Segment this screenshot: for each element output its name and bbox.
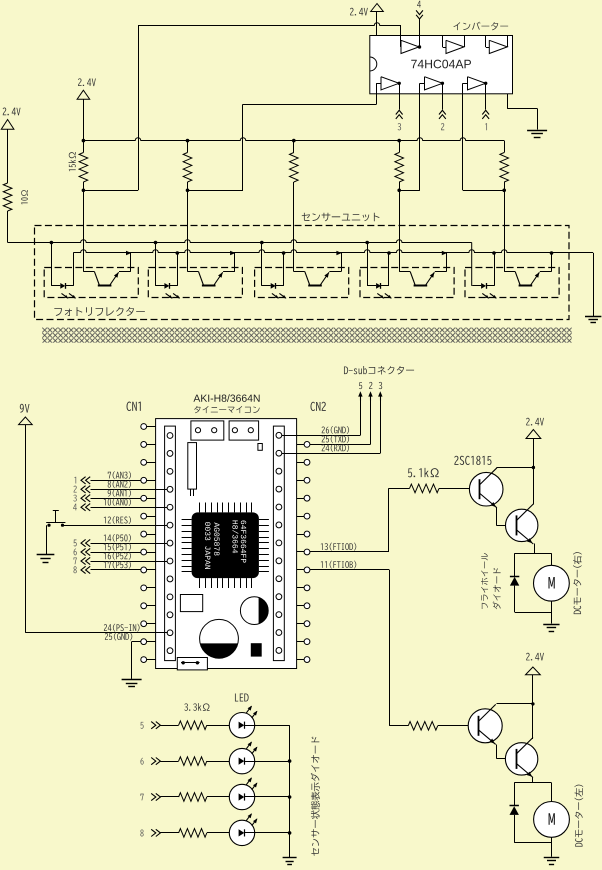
node rail B emitter arrows xyxy=(126,251,131,256)
ground (CN1 GND) xyxy=(122,679,142,681)
QFP markings xyxy=(241,520,246,562)
flywheel diode (right) xyxy=(510,576,519,578)
capacitor top view xyxy=(240,597,268,625)
wire VCC to IC xyxy=(376,12,378,36)
net 24(PS-IN) label xyxy=(104,624,140,632)
hatched line-track strip xyxy=(42,327,572,342)
pin 2 output xyxy=(442,83,444,109)
LED 3 light arrows xyxy=(272,293,279,298)
power 2.4V supply (10ohm LED feed) xyxy=(3,108,21,116)
wire LED common bus xyxy=(289,725,291,857)
label CN2 xyxy=(310,402,325,411)
crystal xyxy=(188,443,197,490)
photo reflector 5 dashed box xyxy=(465,268,559,298)
wire motor node R xyxy=(515,553,552,555)
wire node to diode L xyxy=(514,783,516,806)
wire 2.4V bus xyxy=(83,138,504,141)
node R4 bottom xyxy=(397,189,401,193)
resistor 3.3k (5) xyxy=(179,721,207,730)
label 10ohm xyxy=(21,190,28,204)
wire resistor to Q1 base xyxy=(439,488,470,490)
net 7 wire to LED xyxy=(140,794,143,801)
resistor 3.3k (7) xyxy=(179,793,207,802)
LED emitter diode 1 xyxy=(51,243,53,286)
net 7 wire 16(P52) xyxy=(74,557,77,564)
phototransistor 1 xyxy=(83,271,94,273)
IC 74HC04AP body xyxy=(370,36,513,94)
ground (LED bus) xyxy=(283,857,297,859)
label sensor status LEDs xyxy=(311,737,320,856)
net 11(FTIOB) wire xyxy=(310,569,389,571)
wire ground return rail B xyxy=(73,250,593,253)
node inverter5 output xyxy=(441,82,444,85)
motor M left xyxy=(551,783,553,802)
D-sub pin numbers xyxy=(359,382,362,389)
wire diode return L xyxy=(514,842,551,844)
node inverter4 output xyxy=(398,82,401,85)
resistor 15k pullup 1 xyxy=(83,141,85,153)
CN1 inner pins xyxy=(167,433,173,439)
label 15k ohm xyxy=(69,152,76,171)
LED 2 light arrows xyxy=(166,293,173,298)
label photo reflector xyxy=(54,307,145,316)
wire R5 to inverter6 input xyxy=(463,190,504,192)
wire R4 to inverter5 input xyxy=(399,190,420,192)
transistor Q4 2SC1815 xyxy=(505,743,537,775)
node rail B emitter tap 5 xyxy=(550,251,554,255)
ground (reset switch) xyxy=(37,554,55,556)
node inverter6 output xyxy=(484,82,487,85)
board component rect xyxy=(180,595,202,612)
power 9V supply xyxy=(20,404,30,413)
net 26(GND) wire xyxy=(282,435,361,437)
net 24(RXD) wire xyxy=(282,453,381,455)
label 2SC1815 xyxy=(454,456,491,465)
inverter gate U1E xyxy=(425,77,443,90)
net 13(FTIOD) wire xyxy=(310,551,389,553)
board header block 2 xyxy=(229,421,259,440)
photo reflector 3 dashed box xyxy=(255,268,349,298)
wire Q2 emitter to motor node xyxy=(534,544,536,554)
phototransistor 2 xyxy=(188,271,199,273)
power 2.4V supply (motor L) xyxy=(526,653,544,661)
power switch xyxy=(177,658,207,670)
net 4 wire 10(AN0) xyxy=(73,504,77,511)
buzzer top view xyxy=(200,619,239,658)
wire 9V to PS-IN xyxy=(25,425,27,633)
power 2.4V supply (motor R) xyxy=(526,418,544,426)
LED emitter diode 3 xyxy=(261,243,263,286)
board header block 1 xyxy=(191,421,224,440)
inverter gate U1C xyxy=(489,40,507,53)
ground (sensor unit) xyxy=(585,316,601,318)
pin 1 output xyxy=(485,83,487,109)
net 5 wire 14(P50) xyxy=(74,540,77,547)
wire IC ground pin xyxy=(507,94,509,109)
net 6 wire to LED xyxy=(140,758,143,765)
wire 10ohm to LED rail xyxy=(7,211,9,243)
inverter gate U1D xyxy=(381,77,399,90)
wire collector drop 5 xyxy=(504,190,506,271)
photo reflector 1 dashed box xyxy=(44,268,138,298)
transistor Q2 2SC1815 xyxy=(506,509,538,541)
resistor 15k pullup 2 xyxy=(187,141,189,153)
resistor 15k pullup 5 xyxy=(504,141,506,153)
status LED 5 xyxy=(207,725,230,727)
small component xyxy=(258,444,262,451)
net 1 wire 7(AN3) xyxy=(74,477,76,484)
resistor 10ohm xyxy=(3,183,12,211)
wire rail B to ground xyxy=(593,253,595,317)
node rail A anode taps xyxy=(50,241,54,245)
CN1 pin strip xyxy=(165,426,176,660)
label 5.1k xyxy=(408,468,439,477)
wire 2.4V to 10ohm resistor xyxy=(7,129,9,183)
net 2 wire 8(AN2) xyxy=(74,486,77,493)
status LED 6 xyxy=(207,761,230,763)
transistor Q1 2SC1815 xyxy=(470,488,480,490)
label CN1 xyxy=(127,402,141,412)
node rail B cathode taps xyxy=(176,251,180,255)
LED emitter diode 2 xyxy=(155,243,157,286)
net 25(TXD) wire xyxy=(310,444,371,446)
flywheel diode (left) xyxy=(510,805,519,807)
CN2 inner pins xyxy=(276,432,282,438)
wire collector drop 1 xyxy=(83,190,85,271)
LED 1 light arrows xyxy=(62,293,69,298)
net 3 wire 9(AN1) xyxy=(73,495,76,502)
photo reflector 2 dashed box xyxy=(148,268,242,298)
motor M right xyxy=(551,553,553,565)
D-sub pin arrows xyxy=(360,396,362,401)
transistor Q3 2SC1815 xyxy=(468,725,478,727)
phototransistor 5 xyxy=(504,271,515,273)
inverter gate U1F xyxy=(468,77,486,90)
status LED 8 xyxy=(207,832,230,834)
label LED xyxy=(235,693,249,701)
label flywheel diode xyxy=(481,553,488,609)
resistor 5.1k (L) xyxy=(408,722,438,731)
label D-sub connector xyxy=(344,366,414,375)
phototransistor 3 xyxy=(294,271,305,273)
CN2 outer pin stubs xyxy=(297,444,305,446)
CN2 outer pins xyxy=(304,442,310,448)
label DC motor right xyxy=(573,552,582,614)
CN2 pin strip xyxy=(273,426,284,660)
wire motor node L xyxy=(514,782,551,784)
wire 2.4V to collectors L xyxy=(532,675,534,739)
ground (motor R) xyxy=(543,624,559,626)
power 2.4V supply (IC VCC pin14) xyxy=(350,8,368,16)
resistor 3.3k (6) xyxy=(179,757,207,766)
status LED 7 xyxy=(207,796,230,798)
push switch (reset) xyxy=(46,522,65,524)
wire base resistor L xyxy=(389,725,408,727)
ground (motor L) xyxy=(544,857,560,859)
sensor unit dashed box xyxy=(35,226,570,320)
resistor 3.3k (8) xyxy=(179,829,207,838)
node bus junctions xyxy=(82,139,86,143)
wire resistor to Q3 base xyxy=(438,725,469,727)
wire collector drop 4 xyxy=(399,190,401,271)
wire diode return R xyxy=(515,612,552,614)
node R1 bottom xyxy=(82,189,86,193)
label inverter (katakana) xyxy=(453,22,508,31)
net 25(GND) wire xyxy=(132,641,141,643)
label 3.3k xyxy=(184,703,209,711)
net 12(RES) wire xyxy=(63,525,168,527)
photo reflector 4 dashed box xyxy=(360,268,454,298)
CN1 outer pin stubs xyxy=(147,426,156,428)
wire Q3 emitter to Q4 base xyxy=(496,745,498,759)
inverter gate U1A xyxy=(401,40,419,53)
wire 2.4V to collectors R xyxy=(533,439,535,505)
net 5 wire to LED xyxy=(140,722,143,729)
phototransistor 4 xyxy=(399,271,410,273)
LED emitter diode 4 xyxy=(367,243,369,286)
power 2.4V supply (pullup bus) xyxy=(78,78,96,86)
connector pin 4 (inverter1 output) xyxy=(417,1,421,8)
wire Q4 emitter to motor node xyxy=(532,778,534,783)
wire node to diode R xyxy=(514,553,516,576)
black component xyxy=(251,643,262,656)
LED 4 light arrows xyxy=(377,293,384,298)
LED 5 light arrows xyxy=(482,293,489,298)
label AKI-H8/3664N xyxy=(193,394,259,402)
ground (IC) xyxy=(527,130,547,132)
label tiny microcontroller xyxy=(194,406,260,413)
MCU board outline xyxy=(156,419,297,669)
wire 2.4V drop to bus xyxy=(83,99,85,140)
wire R1 to inverter1 input xyxy=(83,190,138,192)
wire Q1 emitter to Q2 base xyxy=(496,508,498,526)
resistor 15k pullup 4 xyxy=(399,141,401,153)
wire collector drop 2 xyxy=(187,190,189,271)
wire collector drop 3 xyxy=(293,182,295,272)
net 6 wire 15(P51) xyxy=(74,548,77,555)
pin 3 output xyxy=(399,83,401,109)
node R5 bottom xyxy=(502,189,506,193)
wire R2 to inverter4 input xyxy=(188,190,244,192)
label DC motor left xyxy=(575,785,584,847)
CN1 outer pins xyxy=(141,424,147,430)
resistor 5.1k xyxy=(410,484,440,493)
IC H8/3664 QFP xyxy=(192,512,259,578)
wire LED anode rail A xyxy=(8,240,472,243)
wire base resistor R xyxy=(389,488,410,490)
LED emitter diode 5 xyxy=(471,243,473,286)
net 8 wire to LED xyxy=(140,829,143,836)
node R2 bottom xyxy=(186,189,190,193)
resistor 15k pullup 3 xyxy=(293,141,295,153)
net 8 wire 17(P53) xyxy=(73,566,76,573)
label sensor unit xyxy=(302,213,380,222)
inverter gate U1B xyxy=(446,40,464,53)
